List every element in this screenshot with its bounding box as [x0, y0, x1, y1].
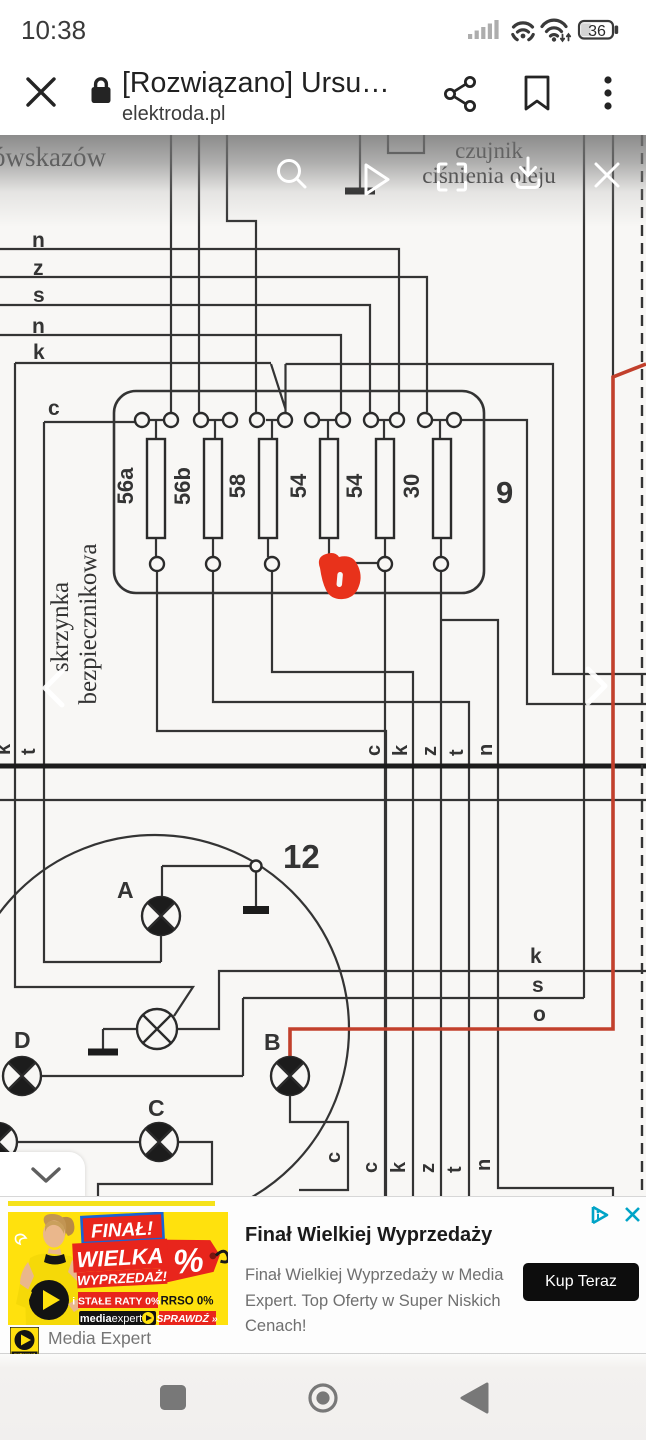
svg-text:skrzynka: skrzynka: [47, 582, 74, 672]
svg-text:k: k: [388, 1161, 410, 1173]
svg-text:A: A: [117, 877, 134, 903]
svg-text:z: z: [417, 1163, 439, 1173]
svg-text:c: c: [48, 397, 60, 420]
svg-text:58: 58: [225, 474, 250, 498]
svg-text:56b: 56b: [170, 467, 195, 505]
svg-text:z: z: [33, 257, 44, 280]
svg-text:k: k: [530, 945, 542, 968]
svg-text:B: B: [264, 1029, 281, 1055]
svg-text:t: t: [18, 748, 40, 755]
svg-text:12: 12: [283, 838, 320, 875]
svg-text:z: z: [419, 746, 441, 756]
svg-text:s: s: [33, 284, 45, 307]
svg-text:n: n: [32, 229, 45, 252]
svg-text:k: k: [0, 743, 15, 755]
svg-text:n: n: [475, 744, 497, 756]
svg-text:FINAŁ!: FINAŁ!: [90, 1218, 153, 1242]
svg-text:mediaexpert: mediaexpert: [80, 1313, 142, 1325]
svg-text:54: 54: [286, 473, 311, 498]
svg-text:k: k: [33, 341, 45, 364]
svg-text:%: %: [171, 1241, 205, 1282]
svg-text:9: 9: [496, 475, 513, 510]
svg-text:c: c: [323, 1152, 345, 1163]
svg-text:t: t: [444, 1166, 466, 1173]
svg-text:t: t: [446, 749, 468, 756]
svg-text:i STAŁE RATY 0%!: i STAŁE RATY 0%!: [72, 1296, 164, 1308]
svg-text:n: n: [473, 1159, 495, 1171]
svg-text:WIELKA: WIELKA: [76, 1243, 164, 1273]
svg-text:D: D: [14, 1027, 31, 1053]
svg-text:c: c: [363, 745, 385, 756]
svg-text:56a: 56a: [113, 467, 138, 504]
svg-text:C: C: [148, 1095, 165, 1121]
svg-text:o: o: [533, 1003, 546, 1026]
svg-text:s: s: [532, 974, 544, 997]
svg-text:SPRAWDŹ »: SPRAWDŹ »: [156, 1312, 217, 1325]
svg-text:36: 36: [588, 23, 606, 40]
svg-text:54: 54: [342, 473, 367, 498]
svg-text:k: k: [390, 744, 412, 756]
svg-text:RRSO 0%: RRSO 0%: [160, 1296, 213, 1308]
svg-text:bezpiecznikowa: bezpiecznikowa: [75, 543, 102, 704]
svg-text:n: n: [32, 315, 45, 338]
svg-text:30: 30: [399, 474, 424, 498]
svg-text:c: c: [360, 1162, 382, 1173]
